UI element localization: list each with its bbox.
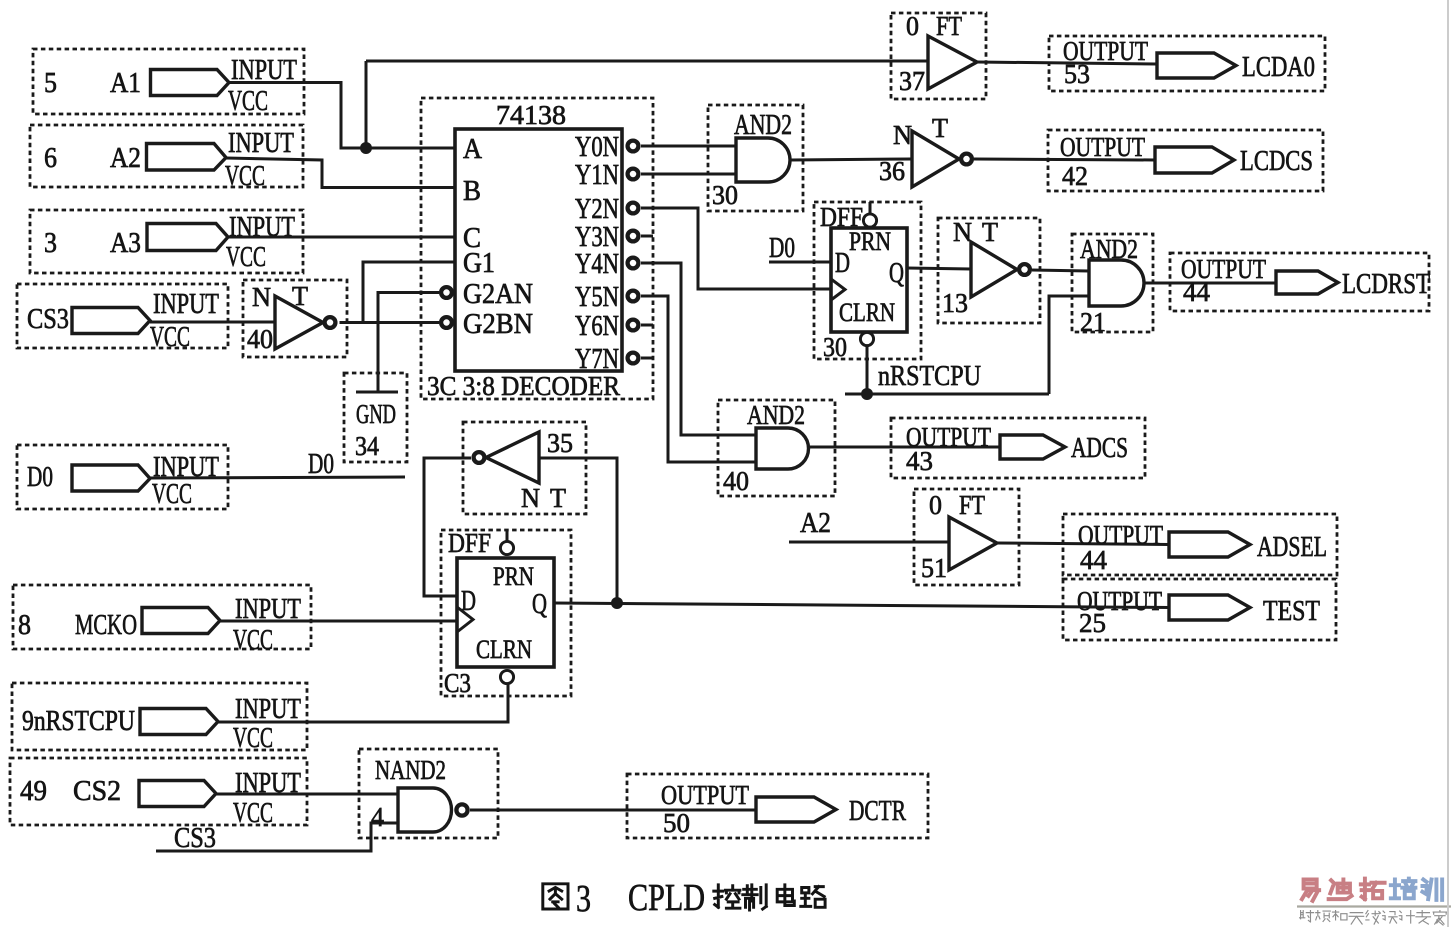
net stub CS3 to NAND2 second input xyxy=(156,822,398,854)
svg-text:36: 36 xyxy=(879,156,905,186)
node junction Q/TEST xyxy=(611,597,623,609)
wire inverter 35 output to DFF C3 D xyxy=(424,458,471,596)
svg-text:A2: A2 xyxy=(800,507,831,539)
wire / net stub D0 from input xyxy=(150,448,405,480)
svg-text:CPLD: CPLD xyxy=(628,877,705,919)
dff C3 (DFF) xyxy=(441,528,571,698)
net stub A2 to buffer 51 xyxy=(789,507,949,542)
scan edge line xyxy=(1447,0,1449,927)
svg-text:G2AN: G2AN xyxy=(463,279,533,310)
wire Y0N to AND2 30 xyxy=(641,145,736,148)
svg-text:LCDCS: LCDCS xyxy=(1240,146,1313,177)
wire A2 to decoder pin B xyxy=(226,158,455,188)
svg-text:30: 30 xyxy=(712,180,738,210)
svg-text:Q: Q xyxy=(532,589,547,620)
svg-text:INPUT: INPUT xyxy=(235,694,301,725)
svg-text:AND2: AND2 xyxy=(747,400,805,430)
net nRSTCPU xyxy=(845,296,1089,394)
wire A1 to decoder pin A and to buffer 37 xyxy=(228,61,928,148)
svg-text:Y0N: Y0N xyxy=(575,132,619,163)
wire DFF 30 Q to inverter 13 xyxy=(907,268,971,269)
and gate AND2 30 xyxy=(708,105,803,211)
input pin A1 (pin 5) xyxy=(33,49,304,117)
svg-text:50: 50 xyxy=(663,808,690,838)
svg-text:nRSTCPU: nRSTCPU xyxy=(878,360,981,392)
svg-text:T: T xyxy=(550,483,566,513)
pin bubble Y2N xyxy=(628,203,639,214)
svg-text:T: T xyxy=(932,113,948,143)
wire inverter 36 to OUTPUT 42 xyxy=(974,159,1155,160)
svg-text:74138: 74138 xyxy=(496,100,566,130)
svg-text:A2: A2 xyxy=(110,142,141,174)
svg-text:0: 0 xyxy=(906,11,919,41)
svg-text:N: N xyxy=(252,282,271,312)
svg-text:VCC: VCC xyxy=(152,479,192,510)
svg-text:D: D xyxy=(835,248,850,279)
svg-text:5: 5 xyxy=(44,67,57,99)
svg-text:OUTPUT: OUTPUT xyxy=(1060,132,1145,162)
svg-text:CS3: CS3 xyxy=(27,303,69,335)
output pin 42 LCDCS xyxy=(1048,130,1323,191)
svg-text:CS2: CS2 xyxy=(73,775,121,807)
input pin CS3 xyxy=(17,284,228,353)
svg-text:CLRN: CLRN xyxy=(476,635,532,664)
inverter U13 (NOT) xyxy=(938,217,1040,323)
buffer U51 (0 FT) xyxy=(914,489,1019,585)
svg-text:A3: A3 xyxy=(110,227,141,259)
wire CS3 to inverter 40 xyxy=(150,321,275,324)
decoder U1 74138 3:8 DECODER xyxy=(421,98,653,401)
svg-text:G2BN: G2BN xyxy=(463,309,533,340)
svg-text:VCC: VCC xyxy=(150,322,190,353)
svg-text:3: 3 xyxy=(576,878,591,920)
svg-text:34: 34 xyxy=(355,431,379,461)
svg-text:44: 44 xyxy=(1183,277,1211,307)
watermark logo: 易迪拓培训 xyxy=(1302,879,1442,901)
svg-text:D0: D0 xyxy=(769,232,795,264)
svg-text:OUTPUT: OUTPUT xyxy=(661,780,749,810)
and gate AND2 40 xyxy=(718,400,835,496)
svg-text:FT: FT xyxy=(959,490,985,520)
input pin nRSTCPU (pin 9) xyxy=(12,683,307,754)
input pin D0 xyxy=(17,445,228,510)
svg-text:MCKO: MCKO xyxy=(75,609,137,641)
svg-text:NAND2: NAND2 xyxy=(375,755,446,785)
svg-text:PRN: PRN xyxy=(493,562,534,591)
svg-text:Y5N: Y5N xyxy=(575,282,619,313)
watermark tagline: 射频和天线设计专家 xyxy=(1300,911,1447,926)
output pin 53 LCDA0 xyxy=(1049,36,1325,91)
svg-text:PRN: PRN xyxy=(849,227,891,256)
svg-text:43: 43 xyxy=(906,446,933,476)
input pin CS2 (pin 49) xyxy=(10,758,307,829)
svg-text:13: 13 xyxy=(942,288,968,318)
svg-text:8: 8 xyxy=(18,609,31,641)
wire Q feedback to inverter 35 input xyxy=(539,458,617,603)
svg-text:Y4N: Y4N xyxy=(575,249,619,280)
buffer U37 (0 FT) xyxy=(891,11,986,99)
pin bubble Y5N xyxy=(628,291,639,302)
input pin MCKO (pin 8) xyxy=(13,585,311,656)
wire buffer 51 to OUTPUT 44 ADSEL xyxy=(997,543,1169,545)
svg-text:DCTR: DCTR xyxy=(849,796,906,827)
svg-text:VCC: VCC xyxy=(226,242,266,273)
svg-text:Y2N: Y2N xyxy=(575,194,619,225)
svg-text:40: 40 xyxy=(247,324,273,354)
svg-text:42: 42 xyxy=(1062,161,1088,191)
output pin 50 DCTR xyxy=(627,774,928,838)
watermark divider line xyxy=(1297,905,1451,907)
svg-text:Y1N: Y1N xyxy=(575,160,619,191)
svg-text:FT: FT xyxy=(936,11,962,41)
svg-text:51: 51 xyxy=(921,553,947,583)
wire Y5N to AND2 40 xyxy=(641,296,756,462)
svg-text:VCC: VCC xyxy=(228,86,268,117)
svg-text:A1: A1 xyxy=(110,67,141,99)
wire DFF C3 Q to OUTPUT 25 TEST xyxy=(554,603,1169,608)
svg-text:3: 3 xyxy=(44,227,57,259)
wire MCKO to DFF C3 clock xyxy=(220,620,457,623)
wire Y7N stub xyxy=(641,357,653,360)
pin bubble Y3N xyxy=(628,231,639,242)
svg-text:N: N xyxy=(953,217,972,247)
svg-text:37: 37 xyxy=(899,66,925,96)
pin bubble G2BN xyxy=(441,317,452,328)
svg-text:40: 40 xyxy=(723,466,749,496)
svg-text:49: 49 xyxy=(20,775,47,807)
wire Y4N to AND2 40 xyxy=(641,263,756,435)
svg-text:CS3: CS3 xyxy=(174,822,216,854)
svg-text:6: 6 xyxy=(44,142,57,174)
svg-text:9nRSTCPU: 9nRSTCPU xyxy=(22,705,135,737)
svg-text:VCC: VCC xyxy=(233,625,273,656)
wire NAND2 to OUTPUT 50 xyxy=(470,809,756,812)
inverter U40 (NOT) xyxy=(243,280,347,357)
and gate AND2 21 xyxy=(1072,234,1153,337)
svg-text:INPUT: INPUT xyxy=(228,128,294,159)
svg-text:ADCS: ADCS xyxy=(1071,433,1128,464)
wire AND2 40 to OUTPUT 43 xyxy=(809,446,1000,449)
svg-text:INPUT: INPUT xyxy=(153,289,219,320)
svg-text:D0: D0 xyxy=(308,448,334,480)
wire Y3N stub xyxy=(641,235,653,238)
svg-text:44: 44 xyxy=(1080,545,1108,575)
wire nRSTCPU input to DFF C3 CLRN xyxy=(218,684,508,722)
svg-text:VCC: VCC xyxy=(233,723,273,754)
svg-text:25: 25 xyxy=(1079,608,1106,638)
svg-text:VCC: VCC xyxy=(233,798,273,829)
svg-text:C3: C3 xyxy=(444,668,471,698)
wire A3 to decoder pin C xyxy=(228,236,455,239)
svg-text:53: 53 xyxy=(1064,59,1090,89)
svg-text:TEST: TEST xyxy=(1263,596,1320,627)
svg-text:Y6N: Y6N xyxy=(575,311,619,342)
dff U30 (DFF) xyxy=(814,202,921,362)
pin bubble G2AN xyxy=(441,287,452,298)
output pin 43 ADCS xyxy=(891,418,1145,478)
svg-text:Q: Q xyxy=(889,258,904,289)
svg-text:CLRN: CLRN xyxy=(839,298,895,327)
wire Y2N to DFF 30 clock xyxy=(641,208,831,289)
nand gate NAND2 4 xyxy=(359,749,498,838)
svg-text:35: 35 xyxy=(547,428,573,458)
wire CS2 to NAND2 input xyxy=(216,793,398,796)
svg-text:GND: GND xyxy=(356,399,396,429)
input pin A2 (pin 6) xyxy=(30,125,303,192)
pin bubble Y0N xyxy=(628,141,639,152)
output pin 25 TEST xyxy=(1063,579,1336,640)
wire AND2 30 output to inverter 36 xyxy=(791,159,911,160)
svg-text:LCDA0: LCDA0 xyxy=(1242,52,1315,83)
inverter U36 (NOT) xyxy=(879,113,972,187)
svg-text:4: 4 xyxy=(371,802,384,832)
net stub D0 to DFF 30 xyxy=(769,232,831,264)
svg-text:B: B xyxy=(463,176,481,207)
svg-text:VCC: VCC xyxy=(225,161,265,192)
wire Y6N stub xyxy=(641,324,653,327)
svg-text:21: 21 xyxy=(1080,307,1106,337)
output pin 44 ADSEL xyxy=(1063,514,1337,575)
svg-text:N: N xyxy=(893,120,912,150)
node junction A1/A xyxy=(360,142,372,154)
pin bubble Y6N xyxy=(628,320,639,331)
svg-text:ADSEL: ADSEL xyxy=(1257,532,1327,563)
pin bubble Y4N xyxy=(628,258,639,269)
svg-text:3C 3:8 DECODER: 3C 3:8 DECODER xyxy=(427,371,620,401)
svg-text:N: N xyxy=(521,483,540,513)
svg-text:T: T xyxy=(982,217,998,247)
wire AND2 21 to OUTPUT 44 xyxy=(1144,282,1276,285)
svg-text:D0: D0 xyxy=(27,461,53,493)
pin bubble Y7N xyxy=(628,353,639,364)
node junction nRSTCPU xyxy=(861,388,873,400)
output pin 44 LCDRST xyxy=(1170,253,1430,311)
svg-text:30: 30 xyxy=(823,332,847,362)
svg-text:DFF: DFF xyxy=(448,528,491,558)
wire Y1N to AND2 30 xyxy=(641,173,736,176)
svg-text:LCDRST: LCDRST xyxy=(1342,269,1430,300)
svg-text:G1: G1 xyxy=(463,248,495,279)
wire DFF 30 CLRN to nRSTCPU net xyxy=(866,346,869,394)
wire inverter 13 to AND2 21 xyxy=(1032,270,1089,271)
ground symbol GND 34 xyxy=(344,323,407,463)
wire buffer 37 to OUTPUT 53 xyxy=(977,62,1157,64)
pin bubble Y1N xyxy=(628,169,639,180)
input pin A3 (pin 3) xyxy=(30,210,303,273)
wire inverter 40 output to G1/G2AN/G2BN xyxy=(340,262,456,323)
svg-text:0: 0 xyxy=(929,490,942,520)
inverter U35 (NOT, feedback) xyxy=(463,422,586,514)
caption: 图 3 CPLD 控制电路 xyxy=(543,877,825,920)
svg-text:A: A xyxy=(463,134,483,165)
